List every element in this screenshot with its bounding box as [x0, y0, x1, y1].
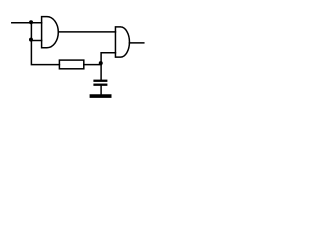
wire node down to capacitor: [100, 64, 102, 79]
wire U1 output to U2 input: [58, 31, 115, 33]
and-gate U2: [115, 27, 129, 57]
node junction dot J3: [99, 61, 103, 65]
node junction dot J1: [29, 20, 33, 24]
wire capacitor to ground: [100, 86, 102, 95]
node junction dot J2: [29, 38, 33, 42]
and-gate U1: [42, 17, 59, 48]
wire vertical branch: [31, 23, 59, 65]
resistor R1: [59, 60, 83, 69]
capacitor C1 plate top: [95, 80, 107, 82]
capacitor C1 plate bottom: [95, 84, 107, 86]
ground symbol: [91, 94, 109, 98]
wire node up to U2 lower input: [101, 53, 115, 65]
wire gate1 input B: [31, 40, 41, 42]
wire resistor to node: [84, 64, 101, 66]
wire U2 output: [129, 42, 143, 44]
wire input A: [12, 22, 42, 24]
